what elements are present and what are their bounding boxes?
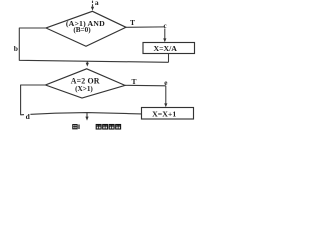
svg-text:(B=0): (B=0) <box>73 26 91 34</box>
node label d <box>24 112 31 121</box>
decision diamond D2 A=2 OR (X>1) <box>46 69 126 98</box>
wire false branch b loop: D1 left vertex, down left side, merge line to right <box>19 28 168 62</box>
svg-text:(X>1): (X>1) <box>75 85 93 93</box>
caption glyph block: character 流 <box>109 125 114 130</box>
entry arrow into node a <box>91 1 94 11</box>
svg-text:T: T <box>130 18 135 27</box>
wire false branch d loop: D2 left vertex, down left side, merge line to box X=X+1 <box>21 85 142 115</box>
process box X=X/A <box>143 43 195 54</box>
caption glyph: numeral 1 of 图1 <box>78 125 79 130</box>
wire node e down into box X=X+1 <box>164 86 167 107</box>
wire from box X=X/A down to merge line <box>168 54 170 63</box>
svg-text:b: b <box>14 44 18 53</box>
wire node c down into box X=X/A <box>163 29 166 43</box>
svg-text:X=X+1: X=X+1 <box>152 110 176 119</box>
merge arrow into decision D2 <box>86 61 89 66</box>
svg-text:T: T <box>131 77 136 86</box>
svg-text:X=X/A: X=X/A <box>153 44 177 53</box>
decision diamond D1 (A>1) AND (B=0) <box>46 11 126 46</box>
wire T branch D2 to node e <box>125 84 166 87</box>
process box X=X+1 <box>142 108 194 120</box>
caption glyph block: character 程 <box>96 125 101 130</box>
wire T branch D1 to node c <box>126 26 165 28</box>
caption glyph block: character 图 <box>116 125 121 130</box>
exit arrow below merge <box>85 113 88 121</box>
caption glyph block: character 序 <box>103 125 108 130</box>
svg-text:a: a <box>95 0 99 7</box>
caption glyph block: character 图 of 图1 <box>73 125 77 129</box>
